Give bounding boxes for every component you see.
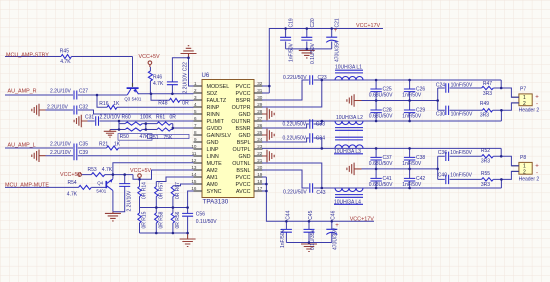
svg-text:PVCC: PVCC xyxy=(236,91,251,97)
svg-text:C32: C32 xyxy=(79,105,88,111)
svg-text:0R R15: 0R R15 xyxy=(142,211,148,228)
svg-text:3R3: 3R3 xyxy=(480,112,489,118)
svg-text:2.2U/10V: 2.2U/10V xyxy=(47,105,69,111)
svg-text:C35: C35 xyxy=(79,142,88,148)
svg-text:AU_AMP_L: AU_AMP_L xyxy=(8,142,36,148)
svg-text:TPA3130: TPA3130 xyxy=(203,198,229,205)
svg-text:GND: GND xyxy=(239,133,251,139)
svg-text:23: 23 xyxy=(257,144,263,149)
svg-text:7: 7 xyxy=(194,123,197,128)
svg-text:10nF/50V: 10nF/50V xyxy=(451,83,473,89)
svg-text:28: 28 xyxy=(257,109,263,114)
svg-text:Q4: Q4 xyxy=(97,180,103,185)
svg-text:FAULTZ: FAULTZ xyxy=(207,98,227,104)
svg-text:U6: U6 xyxy=(202,73,210,79)
svg-text:2.2U/10V: 2.2U/10V xyxy=(50,88,72,94)
svg-text:SYNC: SYNC xyxy=(207,189,222,195)
svg-text:GND: GND xyxy=(239,112,251,118)
svg-text:0.22U/50V: 0.22U/50V xyxy=(283,189,307,195)
svg-text:P8: P8 xyxy=(520,155,526,161)
svg-text:VCC+5V: VCC+5V xyxy=(130,168,152,174)
svg-text:AU_AMP_R: AU_AMP_R xyxy=(8,89,37,95)
svg-text:3R3: 3R3 xyxy=(481,182,490,188)
svg-text:0.1U/50V: 0.1U/50V xyxy=(196,219,218,225)
svg-text:1nF/50V: 1nF/50V xyxy=(402,113,422,119)
svg-text:GVDD: GVDD xyxy=(207,126,223,132)
svg-text:PVCC: PVCC xyxy=(236,175,251,181)
svg-text:14: 14 xyxy=(191,172,197,177)
svg-text:0.22U/50V: 0.22U/50V xyxy=(283,136,307,142)
svg-text:MCU_AMP-STBY: MCU_AMP-STBY xyxy=(6,52,49,58)
svg-text:R47: R47 xyxy=(483,81,492,87)
svg-text:2.2U/10V: 2.2U/10V xyxy=(127,190,133,212)
svg-text:17: 17 xyxy=(257,186,263,191)
svg-text:5401: 5401 xyxy=(132,96,142,101)
svg-text:RINN: RINN xyxy=(207,112,220,118)
svg-text:1nF/50V: 1nF/50V xyxy=(402,182,422,188)
svg-text:0R R14: 0R R14 xyxy=(142,182,148,199)
svg-text:R45: R45 xyxy=(60,48,69,54)
svg-text:GND: GND xyxy=(207,140,219,146)
svg-text:5: 5 xyxy=(194,109,197,114)
svg-text:AM2: AM2 xyxy=(207,168,218,174)
svg-text:0.22U/50V: 0.22U/50V xyxy=(283,75,307,81)
svg-text:VCC+5V: VCC+5V xyxy=(139,54,161,60)
svg-text:AM0: AM0 xyxy=(207,182,218,188)
svg-text:0.68U/50V: 0.68U/50V xyxy=(369,92,393,98)
svg-text:0R R58: 0R R58 xyxy=(159,211,165,228)
svg-text:PLIMIT: PLIMIT xyxy=(207,119,225,125)
svg-text:2: 2 xyxy=(194,88,197,93)
svg-text:0R: 0R xyxy=(182,101,189,107)
svg-text:C27: C27 xyxy=(79,88,88,94)
svg-text:19: 19 xyxy=(257,172,263,177)
svg-text:21: 21 xyxy=(257,158,263,163)
svg-text:10: 10 xyxy=(191,144,197,149)
svg-text:C40: C40 xyxy=(438,173,447,179)
svg-text:P7: P7 xyxy=(520,87,526,93)
svg-text:4.7K: 4.7K xyxy=(60,59,71,65)
svg-text:16: 16 xyxy=(191,186,197,191)
svg-text:2: 2 xyxy=(523,169,526,175)
svg-text:LINP: LINP xyxy=(207,147,219,153)
svg-text:R51: R51 xyxy=(149,135,158,141)
svg-text:3R3: 3R3 xyxy=(483,91,492,97)
svg-text:C20: C20 xyxy=(310,18,316,27)
svg-text:30: 30 xyxy=(257,95,263,100)
svg-text:AVCC: AVCC xyxy=(236,189,251,195)
svg-text:RINP: RINP xyxy=(207,105,220,111)
svg-text:3: 3 xyxy=(194,95,197,100)
svg-text:2.2U/10V: 2.2U/10V xyxy=(50,142,72,148)
svg-text:C39: C39 xyxy=(79,150,88,156)
svg-text:+: + xyxy=(535,164,539,170)
svg-text:32: 32 xyxy=(257,81,263,86)
svg-text:2: 2 xyxy=(523,101,526,107)
svg-text:C30: C30 xyxy=(436,111,445,117)
svg-text:R48: R48 xyxy=(158,101,167,107)
svg-text:OUTPL: OUTPL xyxy=(233,147,251,153)
svg-text:VCC+17V: VCC+17V xyxy=(350,217,375,223)
svg-text:C36: C36 xyxy=(438,150,447,156)
svg-text:VCC+5V: VCC+5V xyxy=(60,172,82,178)
svg-text:AM1: AM1 xyxy=(207,175,218,181)
svg-text:9: 9 xyxy=(194,137,197,142)
svg-text:LINN: LINN xyxy=(207,154,219,160)
svg-text:10UH/3A L2: 10UH/3A L2 xyxy=(336,115,363,121)
svg-text:3R3: 3R3 xyxy=(481,158,490,164)
svg-text:BSNL: BSNL xyxy=(236,168,250,174)
svg-text:1: 1 xyxy=(194,81,197,86)
svg-text:26: 26 xyxy=(257,123,263,128)
svg-text:470U/35V: 470U/35V xyxy=(333,227,339,250)
svg-text:11: 11 xyxy=(192,151,197,156)
svg-text:0R R67: 0R R67 xyxy=(175,182,181,199)
svg-text:31: 31 xyxy=(257,88,263,93)
svg-text:18: 18 xyxy=(257,179,263,184)
svg-text:R55: R55 xyxy=(481,171,490,177)
svg-text:27: 27 xyxy=(257,116,263,121)
svg-text:R61: R61 xyxy=(156,114,165,120)
svg-text:OUTPR: OUTPR xyxy=(232,105,251,111)
svg-text:2.2U/10V C22: 2.2U/10V C22 xyxy=(182,62,188,94)
svg-text:GND: GND xyxy=(239,154,251,160)
svg-text:1K: 1K xyxy=(113,101,120,107)
svg-text:100K: 100K xyxy=(140,114,152,120)
svg-text:13: 13 xyxy=(191,165,197,170)
svg-text:R21: R21 xyxy=(99,142,108,148)
svg-text:+: + xyxy=(535,94,539,100)
svg-text:15: 15 xyxy=(191,179,197,184)
svg-text:C19: C19 xyxy=(289,18,295,27)
svg-text:MCU_AMP-MUTE: MCU_AMP-MUTE xyxy=(5,182,49,188)
svg-text:75K: 75K xyxy=(163,135,173,141)
svg-text:0R R56: 0R R56 xyxy=(175,211,181,228)
svg-text:22: 22 xyxy=(257,151,263,156)
svg-text:4.7K: 4.7K xyxy=(153,81,164,87)
svg-text:R49: R49 xyxy=(480,101,489,107)
svg-text:C21: C21 xyxy=(335,18,341,27)
svg-text:BSNR: BSNR xyxy=(236,126,251,132)
svg-text:R60: R60 xyxy=(122,114,131,120)
svg-text:2.2U/10V: 2.2U/10V xyxy=(100,114,122,120)
svg-text:PVCC: PVCC xyxy=(236,182,251,188)
svg-text:BSPL: BSPL xyxy=(237,140,251,146)
svg-text:1nF/50V: 1nF/50V xyxy=(402,161,422,167)
svg-text:470U/35V: 470U/35V xyxy=(335,39,341,62)
svg-text:OUTNL: OUTNL xyxy=(232,161,250,167)
svg-text:+: + xyxy=(334,28,338,34)
svg-text:2.2U/10V: 2.2U/10V xyxy=(50,150,72,156)
svg-text:+: + xyxy=(335,223,339,229)
svg-text:VCC+17V: VCC+17V xyxy=(356,23,381,29)
svg-text:C34: C34 xyxy=(316,136,325,142)
svg-text:1nF/50V: 1nF/50V xyxy=(402,92,422,98)
svg-text:10nF/50V: 10nF/50V xyxy=(450,173,472,179)
svg-text:C56: C56 xyxy=(196,212,205,218)
svg-text:0.68U/50V: 0.68U/50V xyxy=(369,161,393,167)
svg-text:4.7K: 4.7K xyxy=(67,191,78,197)
svg-text:1K: 1K xyxy=(114,142,121,148)
svg-text:20: 20 xyxy=(257,165,263,170)
svg-text:Q3: Q3 xyxy=(124,96,130,101)
svg-text:10nF/50V: 10nF/50V xyxy=(450,150,472,156)
svg-text:24: 24 xyxy=(257,137,263,142)
svg-text:8: 8 xyxy=(194,130,197,135)
svg-text:R46: R46 xyxy=(153,74,162,80)
svg-text:C24: C24 xyxy=(436,83,445,89)
svg-text:BSPR: BSPR xyxy=(236,98,251,104)
svg-text:PVCC: PVCC xyxy=(236,84,251,90)
svg-text:R16: R16 xyxy=(99,101,108,107)
svg-text:47K: 47K xyxy=(140,134,150,140)
svg-text:0.68U/50V: 0.68U/50V xyxy=(369,113,393,119)
svg-text:C23: C23 xyxy=(318,75,327,81)
svg-text:1nF/50V: 1nF/50V xyxy=(289,42,295,62)
svg-text:C31: C31 xyxy=(85,114,94,120)
svg-text:R52: R52 xyxy=(481,148,490,154)
svg-text:12: 12 xyxy=(191,158,197,163)
svg-text:4: 4 xyxy=(194,102,197,107)
svg-text:MUTE: MUTE xyxy=(207,161,223,167)
svg-text:OUTNR: OUTNR xyxy=(231,119,250,125)
svg-text:SDZ: SDZ xyxy=(207,91,218,97)
svg-text:Header 2: Header 2 xyxy=(519,108,540,114)
svg-text:10UH/3A L4: 10UH/3A L4 xyxy=(334,199,361,205)
svg-text:1nF/50V: 1nF/50V xyxy=(280,228,286,248)
svg-text:C43: C43 xyxy=(316,190,325,196)
svg-text:R50: R50 xyxy=(120,134,129,140)
svg-text:10nF/50V: 10nF/50V xyxy=(451,111,473,117)
svg-text:0.1U/35V: 0.1U/35V xyxy=(310,228,316,250)
svg-text:C45: C45 xyxy=(308,210,314,219)
svg-text:6: 6 xyxy=(194,116,197,121)
svg-text:5401: 5401 xyxy=(96,188,106,193)
svg-text:10UH/3A L1: 10UH/3A L1 xyxy=(335,64,362,70)
svg-text:10UH/3A L3: 10UH/3A L3 xyxy=(334,149,361,155)
svg-text:-: - xyxy=(536,101,538,107)
svg-text:Header 2: Header 2 xyxy=(519,177,540,183)
svg-text:25: 25 xyxy=(257,130,263,135)
svg-text:GAIN/SLV: GAIN/SLV xyxy=(207,133,232,139)
svg-text:C33: C33 xyxy=(316,122,325,128)
svg-text:C44: C44 xyxy=(285,210,291,219)
svg-text:MODSEL: MODSEL xyxy=(207,84,230,90)
svg-text:R53: R53 xyxy=(88,167,97,173)
svg-text:29: 29 xyxy=(257,102,263,107)
svg-text:0.22U/50V: 0.22U/50V xyxy=(283,122,307,128)
svg-text:R54: R54 xyxy=(68,180,77,186)
svg-text:0.68U/50V: 0.68U/50V xyxy=(369,182,393,188)
svg-text:4.7K: 4.7K xyxy=(102,167,113,173)
svg-text:0.1U/50V: 0.1U/50V xyxy=(310,42,316,64)
svg-text:0R: 0R xyxy=(170,114,177,120)
svg-text:-: - xyxy=(536,170,538,176)
svg-text:0R R57: 0R R57 xyxy=(159,182,165,199)
svg-text:C46: C46 xyxy=(331,210,337,219)
